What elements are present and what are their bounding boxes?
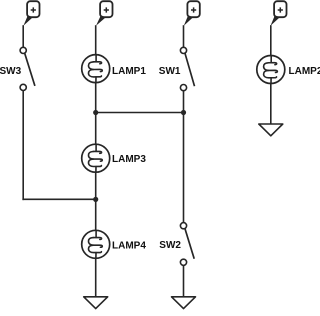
power flag node V3 (top of SW1 branch) (187, 1, 199, 17)
svg-text:LAMP1: LAMP1 (112, 66, 146, 77)
svg-text:LAMP3: LAMP3 (112, 154, 146, 165)
wire SW2 to ground (183, 265, 185, 297)
switch SW2 (180, 223, 194, 266)
svg-text:SW2: SW2 (159, 240, 181, 251)
wire from V4 to LAMP2 (270, 25, 272, 56)
wire from V2 to LAMP1 (95, 25, 97, 55)
wire node A to node C (horizontal) (96, 112, 184, 114)
lamp LAMP4 (82, 230, 110, 258)
wire SW1 to SW2 (183, 91, 185, 223)
wire LAMP2 to ground (270, 83, 272, 124)
switch SW1 (180, 47, 194, 90)
wire from SW3 down to corner (22, 91, 24, 200)
lamp LAMP2 (257, 56, 285, 84)
svg-text:SW1: SW1 (159, 66, 181, 77)
pointer wedge of power flag V2 (96, 15, 106, 25)
lamp LAMP1 (82, 55, 110, 83)
lamp LAMP3 (82, 144, 110, 172)
pointer wedge of power flag V3 (184, 15, 193, 25)
ground under LAMP2 (259, 124, 283, 136)
node B junction dot (93, 197, 98, 202)
switch SW3 (20, 47, 35, 90)
power flag node V2 (top of lamp branch) (100, 1, 112, 17)
pointer wedge of power flag V1 (23, 15, 32, 25)
wire horizontal from corner to node B (22, 198, 96, 200)
wire LAMP4 to ground (95, 258, 97, 297)
wire from V3 to SW1 (183, 25, 185, 47)
ground under SW2 (172, 297, 196, 309)
wire LAMP3 to LAMP4 (95, 172, 97, 231)
wire LAMP1 to LAMP3 (95, 82, 97, 144)
svg-text:SW3: SW3 (0, 66, 22, 77)
power flag node V1 (top of SW3 branch) (27, 1, 39, 17)
power flag node V4 (top of LAMP2 branch) (274, 1, 286, 17)
svg-text:LAMP4: LAMP4 (112, 240, 146, 251)
svg-text:LAMP2: LAMP2 (289, 66, 320, 77)
pointer wedge of power flag V4 (271, 15, 280, 25)
ground under LAMP4 (84, 297, 108, 309)
node A junction dot (93, 110, 98, 115)
wire from V1 to SW3 (22, 25, 24, 47)
node C junction dot (181, 110, 186, 115)
